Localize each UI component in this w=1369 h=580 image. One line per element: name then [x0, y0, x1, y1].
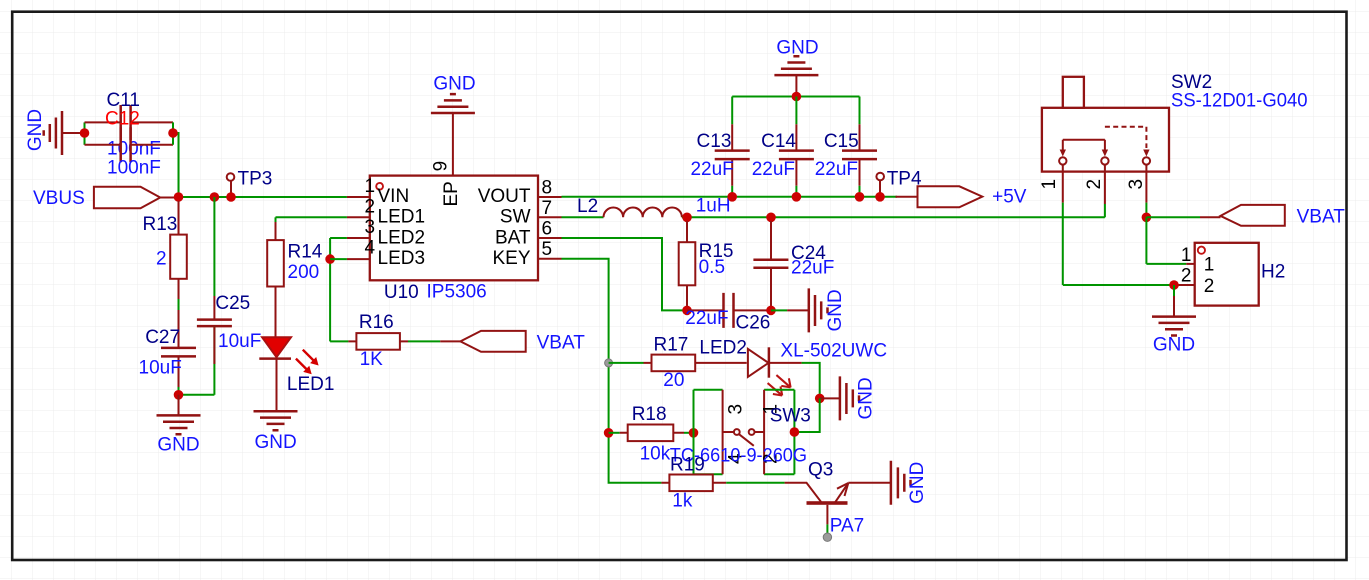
- capacitor C13 22uF: [690, 97, 749, 197]
- junction at cap right bracket: [168, 128, 178, 138]
- svg-text:GND: GND: [25, 109, 46, 151]
- svg-text:1: 1: [365, 176, 376, 197]
- svg-text:10k: 10k: [640, 444, 671, 465]
- ground GND (above C13-C15, pointing up): [774, 38, 818, 97]
- svg-text:R17: R17: [654, 335, 689, 356]
- svg-text:4: 4: [365, 238, 376, 259]
- pin 7 SW: [500, 198, 562, 228]
- svg-text:0.5: 0.5: [699, 257, 725, 278]
- ground GND (below LED1, pointing down): [254, 411, 298, 453]
- junction C14/VOUT: [792, 192, 802, 202]
- test point TP3: [227, 169, 273, 198]
- svg-text:1: 1: [1181, 245, 1192, 266]
- wire: C11/C12 left bracket: [84, 122, 86, 144]
- pin 5 KEY: [492, 239, 561, 269]
- ground GND (right of LED2, pointing right): [820, 376, 877, 420]
- wire: R18 to SW3: [684, 432, 694, 434]
- svg-text:SS-12D01-G040: SS-12D01-G040: [1171, 90, 1308, 111]
- pin 2 of H2: [1174, 266, 1214, 298]
- svg-text:R18: R18: [632, 404, 667, 425]
- resistor R13 value 2: [143, 201, 187, 300]
- junction GND/top rail: [792, 92, 802, 102]
- capacitor C24 22uF: [753, 221, 834, 310]
- svg-text:3: 3: [365, 217, 376, 238]
- wire: R16 to VBAT port: [408, 340, 440, 342]
- wire: SW rail: [687, 216, 1105, 218]
- svg-text:R13: R13: [143, 214, 178, 235]
- junction KEY/R18: [604, 428, 614, 438]
- junction VBUS/R13/caps: [174, 192, 184, 202]
- port VBAT (right, pointing left): [1200, 205, 1345, 228]
- wire: VOUT rail: [562, 196, 898, 198]
- svg-text:VBUS: VBUS: [33, 188, 85, 209]
- node KEY/R17 (gray): [605, 359, 613, 367]
- junction SW3 right / LED2 gnd branch: [790, 427, 800, 437]
- resistor R19 value 1k: [661, 455, 726, 512]
- svg-text:EP: EP: [441, 181, 462, 206]
- svg-text:GND: GND: [776, 38, 818, 59]
- pin 1 VIN: [347, 176, 409, 207]
- svg-text:1: 1: [1204, 255, 1215, 276]
- svg-text:10uF: 10uF: [218, 331, 261, 352]
- svg-text:C13: C13: [697, 131, 732, 152]
- op-amp U10 IP5306 body: [370, 176, 538, 303]
- junction at cap left bracket: [80, 128, 90, 138]
- wire: SW2 pin3 down to VBAT node: [1145, 172, 1147, 203]
- wire: KEY net from pin 5 down to R19 row: [562, 259, 662, 483]
- resistor R16 value 1K: [348, 312, 408, 370]
- svg-text:2: 2: [1204, 276, 1215, 297]
- svg-text:2: 2: [1084, 179, 1105, 190]
- svg-text:1uH: 1uH: [696, 196, 731, 217]
- header H2: [1195, 243, 1286, 306]
- port VBAT (mid, pointing left): [440, 331, 585, 354]
- svg-text:SW3: SW3: [770, 406, 811, 427]
- svg-text:22uF: 22uF: [690, 159, 733, 180]
- svg-text:C15: C15: [824, 131, 859, 152]
- wire: LED2 cathode to GND node: [802, 363, 820, 399]
- resistor R15 value 0.5: [679, 221, 734, 310]
- svg-text:C12: C12: [105, 109, 140, 130]
- svg-text:22uF: 22uF: [752, 159, 795, 180]
- wire: GND node down to SW3 pins 1/2: [794, 398, 819, 432]
- svg-text:R19: R19: [670, 455, 705, 476]
- junction C13/VOUT: [727, 192, 737, 202]
- LED LED1 (red, pointing down): [259, 337, 334, 411]
- svg-text:GND: GND: [907, 462, 928, 504]
- junction VBAT node: [1142, 213, 1152, 223]
- junction TP3: [226, 192, 236, 202]
- svg-text:3: 3: [726, 404, 747, 415]
- wire: caps right bracket down to VBUS node: [173, 122, 179, 197]
- svg-text:9: 9: [430, 161, 451, 172]
- junction H2 pin2 / GND: [1169, 280, 1179, 290]
- wire: pin3 to junction: [330, 237, 347, 239]
- inductor L2 1uH: [562, 196, 731, 218]
- svg-text:VBAT: VBAT: [1297, 207, 1346, 228]
- ground GND (right of C26, pointing right): [771, 288, 846, 332]
- ground GND (below H2, pointing down): [1152, 285, 1196, 356]
- svg-text:+5V: +5V: [992, 187, 1027, 208]
- wire: VBUS row to U10 pin 1: [179, 196, 347, 198]
- capacitor C26 22uF (horizontal): [685, 293, 771, 334]
- svg-text:KEY: KEY: [492, 248, 530, 269]
- capacitor C27 10uF: [139, 327, 197, 389]
- svg-text:1k: 1k: [672, 491, 693, 512]
- svg-text:LED2: LED2: [699, 338, 747, 359]
- wire: C13-C15 top rail: [732, 96, 859, 98]
- svg-text:U10: U10: [384, 282, 419, 303]
- svg-text:VOUT: VOUT: [478, 186, 531, 207]
- pin 3 LED2: [347, 217, 425, 248]
- ground GND (above U10, pointing up): [431, 74, 476, 176]
- svg-text:20: 20: [663, 370, 684, 391]
- transistor Q3 (NPN, base down): [785, 460, 891, 534]
- svg-text:C27: C27: [145, 327, 180, 348]
- wire: BAT to R15 bottom: [562, 238, 688, 310]
- test point TP4: [876, 169, 922, 197]
- svg-text:L2: L2: [577, 196, 598, 217]
- svg-text:8: 8: [542, 177, 553, 198]
- svg-text:5: 5: [542, 239, 553, 260]
- ground GND (below C27, pointing down): [157, 395, 201, 456]
- svg-text:LED1: LED1: [378, 207, 426, 228]
- port +5V: [896, 186, 1027, 207]
- svg-text:2: 2: [365, 196, 376, 217]
- svg-text:GND: GND: [856, 377, 877, 419]
- svg-text:Q3: Q3: [808, 460, 833, 481]
- pin 9 EP: [430, 161, 462, 207]
- pin 8 VOUT: [478, 177, 562, 207]
- junction R15/C26: [682, 306, 692, 316]
- resistor R18 value 10k: [609, 404, 684, 465]
- svg-text:22uF: 22uF: [685, 308, 728, 329]
- svg-text:1: 1: [1039, 179, 1060, 190]
- svg-text:C14: C14: [761, 131, 796, 152]
- pin 2 LED1: [347, 196, 425, 227]
- wire: SW2 pin2 down to SW rail: [1104, 172, 1106, 204]
- svg-text:XL-502UWC: XL-502UWC: [780, 341, 887, 362]
- capacitor C14 22uF: [752, 97, 814, 197]
- svg-text:GND: GND: [254, 432, 296, 453]
- svg-text:3: 3: [1126, 179, 1147, 190]
- capacitor C25 10uF: [197, 197, 261, 395]
- pin 4 LED3: [347, 238, 425, 269]
- svg-text:C26: C26: [736, 313, 771, 334]
- svg-text:LED2: LED2: [378, 227, 426, 248]
- switch SW2 SS-12D01-G040: [1039, 72, 1308, 190]
- resistor R17 value 20: [644, 335, 747, 392]
- junction C15/VOUT: [855, 192, 865, 202]
- wire: C27 bottom to GND node: [179, 387, 215, 395]
- ground GND (left of C11/C12, pointing left): [25, 109, 85, 155]
- port VBUS: [33, 187, 179, 209]
- junction R18/SW3 left: [689, 428, 699, 438]
- svg-text:7: 7: [542, 198, 553, 219]
- svg-text:200: 200: [288, 262, 320, 283]
- svg-text:PA7: PA7: [830, 516, 865, 537]
- svg-text:22uF: 22uF: [791, 258, 834, 279]
- junction C27/C25/GND: [174, 390, 184, 400]
- wire: pins 3/4 down to R16: [330, 238, 348, 341]
- net port PA7 (gray node): [823, 533, 831, 541]
- svg-text:R16: R16: [359, 312, 394, 333]
- wire: SW2 pin1 down and to H2 pin2 row: [1062, 172, 1064, 203]
- wire: pin2 to R14: [276, 216, 347, 218]
- svg-text:22uF: 22uF: [815, 159, 858, 180]
- pin 6 BAT: [495, 219, 562, 249]
- svg-text:2: 2: [156, 249, 167, 270]
- switch SW3 TC-6610-9-260G: [670, 390, 811, 475]
- junction C24/C26: [766, 306, 776, 316]
- svg-text:H2: H2: [1261, 262, 1285, 283]
- junction C25 top: [210, 192, 220, 202]
- svg-text:GND: GND: [825, 289, 846, 331]
- svg-text:BAT: BAT: [495, 227, 531, 248]
- svg-text:10uF: 10uF: [139, 358, 182, 379]
- svg-text:6: 6: [542, 219, 553, 240]
- wire: VBAT node to port: [1146, 216, 1200, 218]
- junction L2/R15: [682, 213, 692, 223]
- svg-text:GND: GND: [1153, 335, 1195, 356]
- junction C24 top: [766, 213, 776, 223]
- wire: to R17: [609, 362, 644, 364]
- capacitor C15 22uF: [815, 97, 877, 197]
- LED LED2 XL-502UWC (pointing right): [699, 338, 887, 396]
- svg-text:R14: R14: [288, 242, 323, 263]
- svg-text:100nF: 100nF: [107, 139, 161, 160]
- svg-text:VBAT: VBAT: [537, 333, 586, 354]
- svg-text:2: 2: [1181, 266, 1192, 287]
- wire: R13 to C27: [178, 299, 180, 310]
- capacitor C11 100nF (horizontal, upper): [85, 90, 174, 160]
- wire: VBAT node to H2 pin1: [1146, 217, 1186, 264]
- pin 1 of H2: [1181, 245, 1214, 276]
- junction pin4/R16: [325, 254, 335, 264]
- wire: pin4 to junction: [330, 258, 347, 260]
- svg-text:VIN: VIN: [378, 186, 410, 207]
- resistor R14 value 200: [267, 217, 323, 337]
- junction LED2/GND/SW3: [815, 394, 825, 404]
- svg-text:SW: SW: [500, 207, 531, 228]
- svg-text:C25: C25: [215, 293, 250, 314]
- svg-text:IP5306: IP5306: [427, 282, 487, 303]
- svg-text:1K: 1K: [360, 349, 384, 370]
- svg-text:LED3: LED3: [378, 248, 426, 269]
- wire: R19 to Q3 collector: [726, 482, 784, 484]
- ground GND (right of Q3, pointing right): [891, 461, 928, 505]
- svg-text:GND: GND: [433, 74, 475, 95]
- svg-text:100nF: 100nF: [107, 158, 161, 179]
- junction TP4: [875, 192, 885, 202]
- svg-text:TP3: TP3: [238, 169, 273, 190]
- capacitor C12 100nF (horizontal, lower): [85, 127, 174, 178]
- svg-text:LED1: LED1: [287, 374, 335, 395]
- svg-text:GND: GND: [157, 435, 199, 456]
